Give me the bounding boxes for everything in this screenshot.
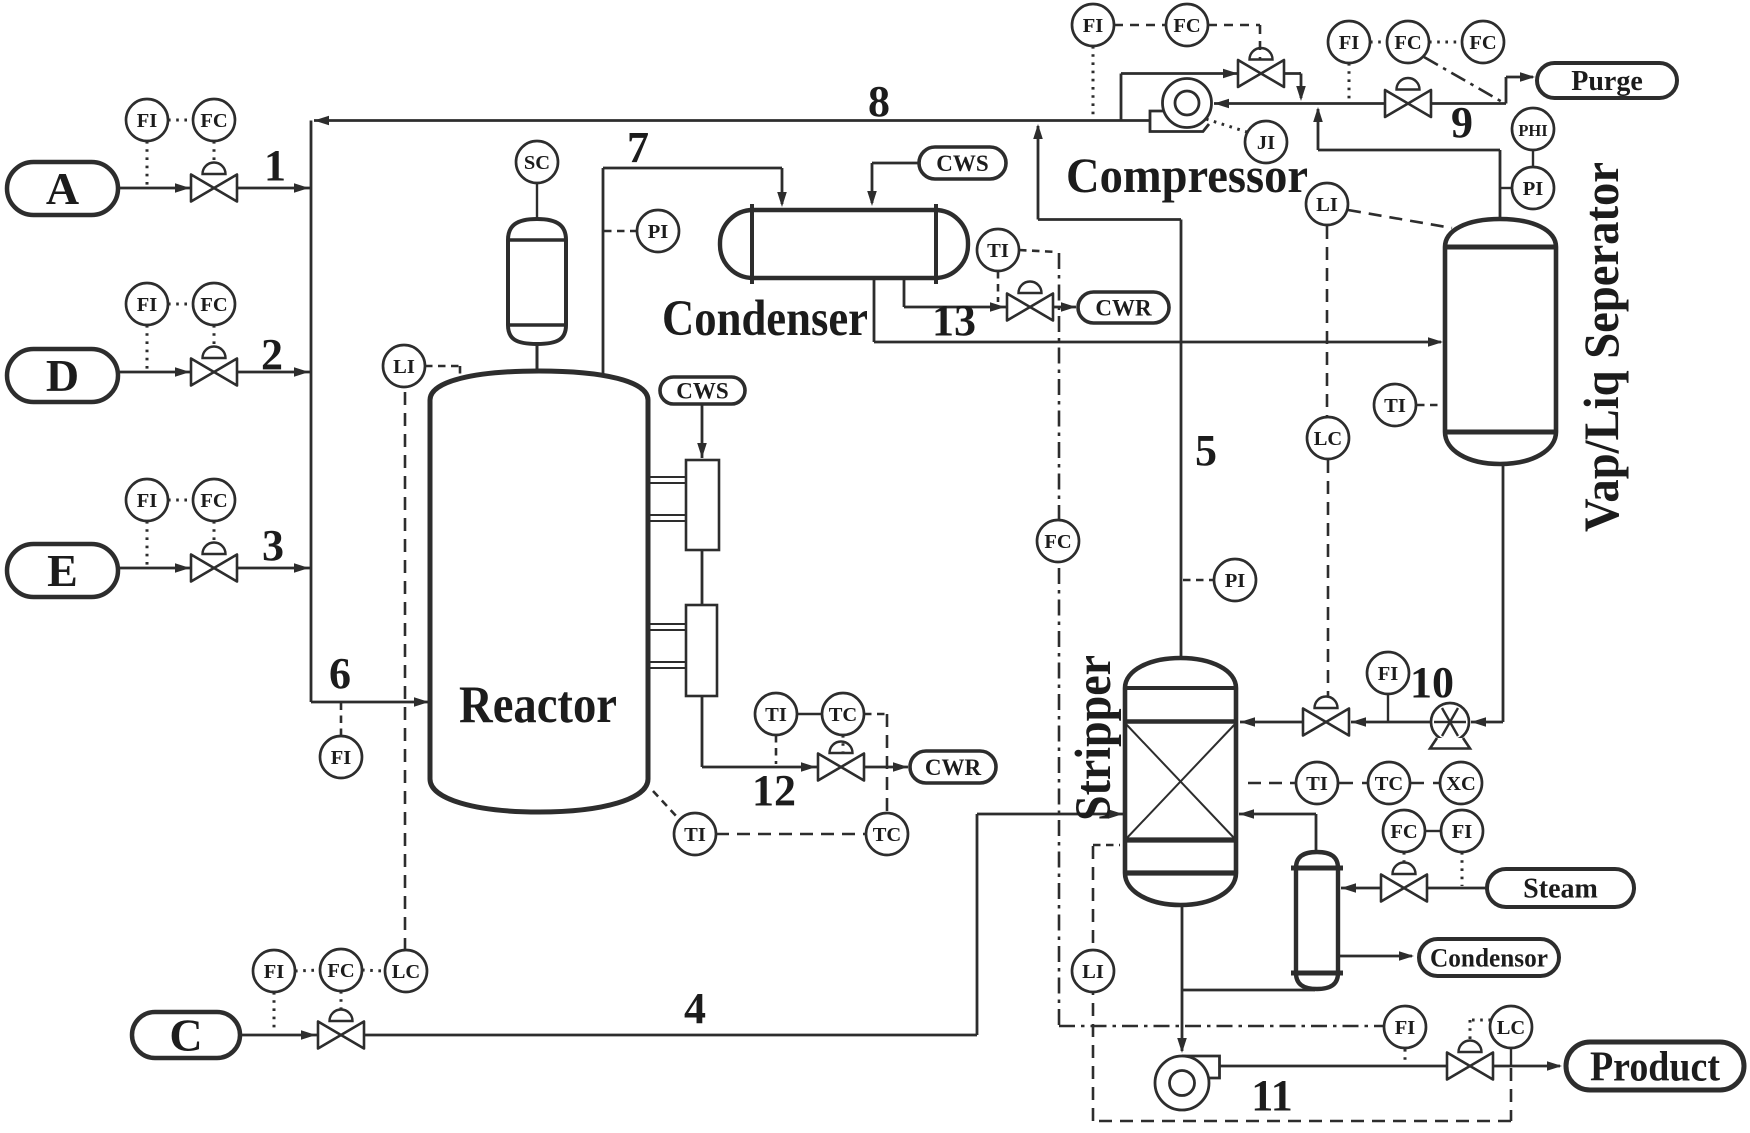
oval CWS condenser <box>919 147 1006 179</box>
instrument FI product <box>1384 1006 1426 1048</box>
signal analyzer to product FI <box>1059 1025 1383 1028</box>
condenser tube sheet left <box>750 204 754 284</box>
signal LC to LI reactor <box>404 387 407 951</box>
wire stream 1 to header <box>237 183 311 193</box>
svg-text:TC: TC <box>1375 773 1403 795</box>
svg-text:PHI: PHI <box>1518 121 1547 140</box>
svg-text:FC: FC <box>1390 821 1417 843</box>
wire stream 2 to header <box>237 367 311 377</box>
svg-text:7: 7 <box>627 123 649 172</box>
wire product to oval <box>1493 1061 1562 1071</box>
node stream 13 label <box>932 296 976 345</box>
svg-text:TI: TI <box>684 824 706 846</box>
signal FC feed A to valve <box>213 141 216 162</box>
svg-text:12: 12 <box>752 766 796 815</box>
signal TC-XC stripper <box>1410 782 1439 785</box>
coil nozzles lower <box>648 624 686 668</box>
wire steam to valve <box>1427 887 1487 890</box>
label Reactor <box>459 676 617 734</box>
svg-text:SC: SC <box>524 152 550 174</box>
svg-text:FC: FC <box>200 110 227 132</box>
signal FI-FC feed D <box>168 303 193 306</box>
svg-text:D: D <box>46 350 79 401</box>
separator weld top <box>1445 245 1556 250</box>
wire stream 4 riser <box>976 814 979 1035</box>
instrument TI separator <box>1374 384 1416 426</box>
instrument TI reactor <box>674 813 716 855</box>
instrument FC purge <box>1387 21 1429 63</box>
oval Condensor <box>1419 939 1559 976</box>
svg-text:Vap/Liq Seperator: Vap/Liq Seperator <box>1573 162 1629 532</box>
instrument LI separator <box>1306 183 1348 225</box>
wire stream 6 <box>311 697 429 707</box>
signal FI-FC feed A <box>168 119 193 122</box>
svg-text:LC: LC <box>392 961 420 983</box>
signal stripper TI stub <box>1248 782 1295 785</box>
wire valve 9 to purge <box>1430 72 1535 103</box>
signal FI purge tap <box>1348 63 1351 100</box>
node stream 11 label <box>1251 1071 1293 1120</box>
instrument PI stream 5 <box>1214 559 1256 601</box>
svg-text:E: E <box>47 545 78 596</box>
stripper packing top <box>1125 719 1236 724</box>
svg-text:PI: PI <box>648 221 669 243</box>
svg-text:8: 8 <box>868 77 890 126</box>
svg-text:LC: LC <box>1314 428 1342 450</box>
oval Product <box>1566 1042 1744 1090</box>
svg-text:FC: FC <box>200 490 227 512</box>
wire reboiler bottoms return <box>1182 988 1316 990</box>
svg-text:Purge: Purge <box>1571 66 1643 97</box>
instrument TI coil outlet <box>755 693 797 735</box>
valve compressor recycle <box>1238 48 1284 87</box>
svg-text:FI: FI <box>1339 32 1360 54</box>
svg-text:FI: FI <box>1452 821 1473 843</box>
signal TI 13 to valve <box>997 271 1000 302</box>
instrument LC separator <box>1307 417 1349 459</box>
label Compressor <box>1066 147 1308 203</box>
signal FC feed C to valve <box>340 991 343 1009</box>
oval CWR condenser <box>1078 292 1169 323</box>
signal FC purge diag <box>1424 57 1504 103</box>
wire stream 5 riser <box>1180 220 1183 660</box>
svg-text:1: 1 <box>264 141 286 190</box>
wire valve 12 to CWR <box>864 762 908 772</box>
wire recycle branch to valve <box>1121 69 1238 79</box>
node stream 5 label <box>1195 426 1217 475</box>
signal PI stream 7 stub <box>604 230 636 233</box>
instrument TC stripper <box>1368 762 1410 804</box>
signal FC feed D to valve <box>213 325 216 346</box>
signal TC to valve 12 <box>842 735 845 752</box>
svg-text:CWR: CWR <box>1095 295 1152 320</box>
wire coil outlet to valve 12 <box>702 762 818 772</box>
svg-text:2: 2 <box>261 330 283 379</box>
svg-text:3: 3 <box>262 521 284 570</box>
vessel Reactor shell <box>430 371 648 812</box>
svg-text:XC: XC <box>1446 773 1476 795</box>
wire product line <box>1220 1065 1448 1068</box>
svg-text:TI: TI <box>1306 773 1328 795</box>
signal FC-FC purge <box>1429 41 1462 44</box>
signal TC coil to TC reactor <box>864 714 887 813</box>
instrument FC feed D <box>193 283 235 325</box>
label Stripper <box>1066 655 1122 821</box>
instrument LI stripper <box>1072 950 1114 992</box>
svg-text:LC: LC <box>1497 1017 1525 1039</box>
wire reboiler to condensor <box>1338 951 1414 961</box>
signal FC feed E to valve <box>213 521 216 542</box>
wire stream 3 to header <box>237 563 311 573</box>
instrument FI feed C <box>253 950 295 992</box>
svg-text:Condenser: Condenser <box>662 291 868 347</box>
pump stream 10 <box>1430 703 1470 749</box>
svg-text:FI: FI <box>1395 1017 1416 1039</box>
instrument FI purge <box>1328 21 1370 63</box>
instrument FC feed C <box>320 949 362 991</box>
svg-text:13: 13 <box>932 296 976 345</box>
svg-text:Steam: Steam <box>1523 874 1598 905</box>
signal TI 13 to analyzer line <box>1019 250 1057 252</box>
instrument TI stripper <box>1296 762 1338 804</box>
stripper weld bottom <box>1125 870 1236 875</box>
svg-text:11: 11 <box>1251 1071 1293 1120</box>
instrument TI stream 13 <box>977 229 1019 271</box>
coil box lower <box>686 605 717 696</box>
signal FI stream 10 stub <box>1387 694 1389 721</box>
vessel agitator housing <box>508 219 566 344</box>
svg-text:FC: FC <box>200 294 227 316</box>
signal FC-LC feed C <box>362 970 385 971</box>
signal FI-FC feed E <box>168 499 193 502</box>
instrument SC agitator <box>516 141 558 183</box>
svg-text:TC: TC <box>873 824 901 846</box>
oval CWS reactor <box>660 377 745 404</box>
vessel Condenser shell <box>720 210 968 278</box>
wire stream 4 into stripper <box>977 809 1123 819</box>
svg-text:6: 6 <box>329 649 351 698</box>
svg-text:A: A <box>46 163 79 214</box>
instrument LI reactor <box>383 345 425 387</box>
stripper packing X <box>1125 723 1236 840</box>
signal analyzer vertical <box>1058 253 1061 1026</box>
instrument FC feed A <box>193 99 235 141</box>
wire condenser outlet to separator <box>874 278 1443 347</box>
instrument FC analyzer <box>1037 520 1079 562</box>
svg-text:C: C <box>169 1010 202 1061</box>
valve 13 cooling water <box>1007 282 1053 321</box>
condenser tube sheet right <box>934 204 938 284</box>
svg-text:TI: TI <box>1384 395 1406 417</box>
wire pump to valve 10 <box>1351 717 1431 727</box>
instrument PI separator <box>1512 167 1554 209</box>
coil box upper <box>686 460 719 550</box>
signal LI-LC separator <box>1326 226 1329 416</box>
instrument LC feed C <box>385 950 427 992</box>
svg-text:TI: TI <box>987 240 1009 262</box>
vessel Separator shell <box>1445 219 1556 464</box>
signal FI feed E tap <box>146 521 149 566</box>
signal FI product tap <box>1404 1049 1407 1064</box>
wire feed D to valve <box>118 367 191 377</box>
pump compressor <box>1150 79 1212 132</box>
node stream 9 label <box>1451 98 1473 147</box>
wire feed header <box>310 121 313 703</box>
svg-text:PI: PI <box>1225 570 1246 592</box>
wire stream 5 up to line 8 <box>1033 124 1043 220</box>
wire CWS condenser <box>867 163 919 206</box>
svg-text:TI: TI <box>765 704 787 726</box>
svg-text:FI: FI <box>1083 15 1104 37</box>
node stream 4 label <box>684 984 706 1033</box>
svg-text:FC: FC <box>1044 531 1071 553</box>
signal PHI-PI <box>1532 150 1534 168</box>
svg-text:FC: FC <box>1173 15 1200 37</box>
svg-text:Reactor: Reactor <box>459 676 617 734</box>
signal PI separator stub <box>1500 187 1512 189</box>
instrument FI feed D <box>126 283 168 325</box>
wire agitator shaft <box>536 344 539 372</box>
oval CWR reactor <box>910 751 996 783</box>
node stream 6 label <box>329 649 351 698</box>
svg-text:FI: FI <box>137 110 158 132</box>
svg-text:FC: FC <box>1394 32 1421 54</box>
signal LI reactor to shell <box>425 366 460 378</box>
svg-text:FI: FI <box>331 747 352 769</box>
wire feed E to valve <box>118 563 191 573</box>
instrument FI feed E <box>126 479 168 521</box>
wire stream 7 top run <box>603 167 782 170</box>
instrument FC purge 2 <box>1462 21 1504 63</box>
svg-text:5: 5 <box>1195 426 1217 475</box>
valve feed A <box>191 163 237 202</box>
wire condenser outlet 13 <box>904 278 1007 312</box>
feed oval D <box>7 349 118 402</box>
instrument FI feed A <box>126 99 168 141</box>
svg-text:Condensor: Condensor <box>1430 943 1548 972</box>
wire SC to agitator <box>536 183 538 219</box>
svg-text:FI: FI <box>137 490 158 512</box>
instrument FC steam <box>1383 810 1425 852</box>
wire stream 7 into condenser <box>777 168 787 207</box>
wire stream 7 riser <box>602 168 605 375</box>
valve 9 purge <box>1385 78 1431 117</box>
valve feed E <box>191 543 237 582</box>
signal FI steam tap <box>1461 852 1464 886</box>
separator weld bottom <box>1445 430 1556 435</box>
signal FC recycle to valve <box>1208 25 1260 60</box>
node stream 8 label <box>868 77 890 126</box>
signal FI-FC recycle <box>1114 24 1165 27</box>
wire valve 13 to CWR <box>1053 302 1076 312</box>
coil nozzles upper <box>648 477 686 521</box>
signal FI stream 6 tap <box>340 703 343 736</box>
valve feed C <box>318 1010 364 1049</box>
node stream 3 label <box>262 521 284 570</box>
valve steam <box>1381 863 1427 902</box>
wire recycle branch riser <box>1120 74 1123 121</box>
signal FI feed D tap <box>146 325 149 370</box>
wire reboiler vapor return <box>1239 809 1316 852</box>
signal TI-TC stripper <box>1339 782 1367 785</box>
instrument XC stripper <box>1440 762 1482 804</box>
wire separator bottoms <box>1471 464 1503 727</box>
instrument FI recycle <box>1072 4 1114 46</box>
signal JI dotted <box>1206 119 1247 132</box>
wire compressor suction <box>1214 99 1386 109</box>
wire coil outlet drop <box>701 696 704 767</box>
oval Steam <box>1487 869 1634 907</box>
svg-text:FI: FI <box>1378 663 1399 685</box>
svg-text:10: 10 <box>1410 658 1454 707</box>
node stream 1 label <box>264 141 286 190</box>
wire separator overhead <box>1313 107 1500 219</box>
node stream 10 label <box>1410 658 1454 707</box>
vessel reboiler shell <box>1296 852 1338 989</box>
instrument JI compressor <box>1245 121 1287 163</box>
valve feed D <box>191 347 237 386</box>
signal FC to steam valve <box>1403 852 1406 873</box>
signal TI separator stub <box>1417 404 1442 407</box>
svg-text:4: 4 <box>684 984 706 1033</box>
node stream 12 label <box>752 766 796 815</box>
wire recycle line 8 <box>314 116 1150 126</box>
svg-text:CWS: CWS <box>676 378 728 403</box>
instrument FC feed E <box>193 479 235 521</box>
feed oval E <box>7 544 118 597</box>
signal FI feed C tap <box>273 992 276 1033</box>
feed oval C <box>132 1010 240 1061</box>
instrument FI steam <box>1441 810 1483 852</box>
wire valve 10 into stripper <box>1240 717 1303 727</box>
instrument FC recycle <box>1166 4 1208 46</box>
svg-text:Product: Product <box>1590 1044 1720 1090</box>
signal TI-TC coil <box>797 713 822 715</box>
svg-text:Stripper: Stripper <box>1066 655 1122 821</box>
wire recycle valve return <box>1284 74 1306 102</box>
wire steam valve to reboiler <box>1341 883 1381 893</box>
instrument TC coil outlet <box>822 693 864 735</box>
svg-text:PI: PI <box>1523 178 1544 200</box>
svg-text:CWS: CWS <box>936 151 988 176</box>
valve 10 separator liquid <box>1303 697 1349 736</box>
svg-text:LI: LI <box>1316 194 1338 216</box>
label Vap/Liq Seperator <box>1573 162 1629 532</box>
instrument LC product <box>1490 1006 1532 1048</box>
vessel Stripper shell <box>1125 658 1236 905</box>
wire stripper bottoms <box>1177 905 1187 1053</box>
signal LI-LC product cascade <box>1093 992 1511 1121</box>
signal LI stripper riser <box>1093 845 1120 950</box>
signal LC to valve 10 <box>1327 460 1330 699</box>
wire stream 5 top run <box>1038 218 1181 221</box>
signal FI-FC purge <box>1370 41 1387 44</box>
reboiler flange bottom <box>1291 971 1343 976</box>
instrument PHI separator <box>1512 108 1554 150</box>
svg-text:FI: FI <box>264 961 285 983</box>
instrument FI stream 6 <box>320 736 362 778</box>
instrument PI stream 7 <box>637 210 679 252</box>
svg-text:FI: FI <box>137 294 158 316</box>
svg-text:9: 9 <box>1451 98 1473 147</box>
wire coil connector <box>701 550 704 605</box>
svg-text:CWR: CWR <box>925 755 982 780</box>
feed oval A <box>7 162 118 215</box>
signal LI separator diag <box>1348 210 1452 228</box>
signal FI recycle tap <box>1092 46 1095 119</box>
svg-text:TC: TC <box>829 704 857 726</box>
valve 12 cooling water <box>818 742 864 781</box>
signal PI stream 5 stub <box>1183 579 1213 582</box>
signal LC product tap <box>1510 1048 1512 1066</box>
pump product <box>1155 1056 1220 1110</box>
signal LC to product valve <box>1470 1020 1491 1043</box>
reboiler flange top <box>1291 866 1343 871</box>
wire CWS to coil <box>697 404 707 458</box>
signal FI-FC feed C <box>295 970 320 971</box>
node stream 7 label <box>627 123 649 172</box>
svg-text:FC: FC <box>1469 32 1496 54</box>
stripper weld top <box>1125 686 1236 690</box>
wire stream 4 horizontal <box>364 1034 977 1037</box>
valve product <box>1447 1041 1493 1080</box>
svg-text:LI: LI <box>1082 961 1104 983</box>
signal TI reactor to shell <box>653 791 678 818</box>
wire feed C to valve <box>240 1030 318 1040</box>
stripper packing bottom <box>1125 837 1236 842</box>
wire feed A to valve <box>118 183 191 193</box>
node stream 2 label <box>261 330 283 379</box>
signal FI feed A tap <box>146 141 149 186</box>
svg-text:LI: LI <box>393 356 415 378</box>
instrument TC reactor <box>866 813 908 855</box>
signal TI-TC reactor <box>716 833 866 836</box>
label Condenser <box>662 291 868 347</box>
oval Purge <box>1537 63 1677 98</box>
signal TI coil tap <box>775 735 778 764</box>
signal FC-FI steam <box>1425 830 1441 832</box>
svg-text:FC: FC <box>327 960 354 982</box>
instrument FI stream 10 <box>1367 652 1409 694</box>
svg-text:JI: JI <box>1257 132 1275 154</box>
